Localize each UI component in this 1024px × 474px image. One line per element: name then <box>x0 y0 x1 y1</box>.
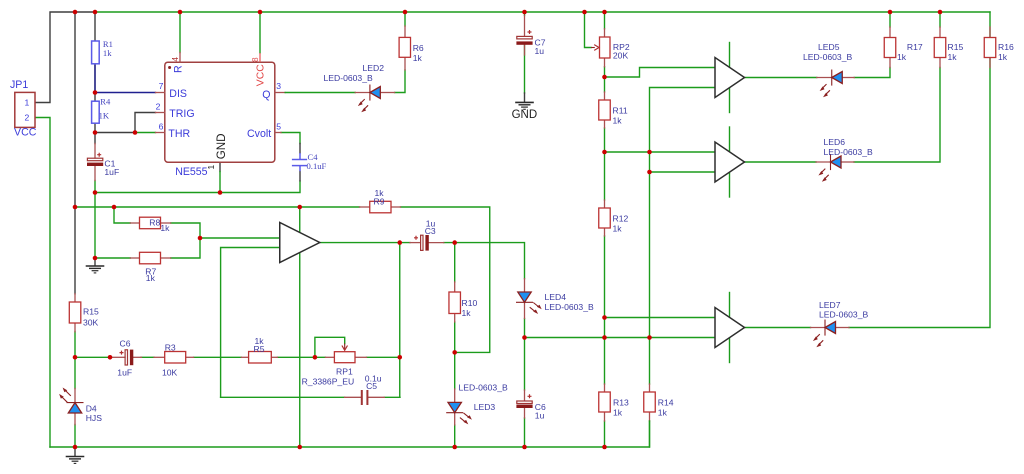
junction rail207 x75 <box>73 205 78 210</box>
capacitor C6 bottom <box>516 390 532 418</box>
junction R11 bottom row <box>602 150 607 155</box>
svg-text:LED-0603_B: LED-0603_B <box>459 383 508 393</box>
svg-text:R9: R9 <box>374 197 385 207</box>
LED7 <box>811 320 850 348</box>
svg-text:1k: 1k <box>613 116 623 126</box>
wire bottom ground rail <box>50 421 650 447</box>
wire RP2 junction to op-amp U3 input+ <box>605 68 716 78</box>
svg-text:R16: R16 <box>998 42 1014 52</box>
svg-text:R5: R5 <box>254 344 265 354</box>
svg-text:D4: D4 <box>86 404 97 414</box>
capacitor C4 <box>292 153 307 171</box>
resistor R9 <box>360 201 401 213</box>
LED5 <box>817 70 855 98</box>
pin lead Q pin3 <box>275 92 285 94</box>
wire op-amp U3 input- column <box>650 88 716 385</box>
wire RP2 wiper from rail <box>585 12 592 48</box>
svg-text:RP1: RP1 <box>336 367 353 377</box>
svg-text:6: 6 <box>159 122 164 132</box>
svg-text:Q: Q <box>262 89 270 101</box>
junction top rail R6 <box>403 10 408 15</box>
wire op-amp U5 output to LED7 <box>745 327 811 329</box>
svg-text:LED3: LED3 <box>474 402 496 412</box>
junction DIS node <box>93 90 98 95</box>
svg-text:NE555: NE555 <box>175 166 207 178</box>
wire C3 junction to R10 <box>454 243 456 282</box>
wire D4 to ground rail <box>74 425 76 448</box>
LED D4 <box>59 388 83 425</box>
svg-text:JP1: JP1 <box>10 79 28 91</box>
junction ground row x95 <box>93 256 98 261</box>
wire op-amp U4 output to LED6 <box>745 161 817 163</box>
svg-text:R13: R13 <box>613 398 629 408</box>
svg-text:3: 3 <box>276 81 281 91</box>
svg-text:DIS: DIS <box>169 88 187 100</box>
svg-text:1u: 1u <box>535 410 545 420</box>
svg-text:1k: 1k <box>462 308 472 318</box>
junction C3 right <box>452 240 457 245</box>
pin lead DIS pin7 <box>156 92 165 94</box>
capacitor C1 <box>87 144 103 181</box>
svg-text:HJS: HJS <box>86 413 103 423</box>
ground symbol GND under C7 <box>515 102 534 109</box>
junction R10 bottom <box>452 350 457 355</box>
svg-text:2: 2 <box>25 113 30 123</box>
svg-text:LED6: LED6 <box>824 137 846 147</box>
resistor R15 30K <box>69 294 81 332</box>
resistor R11 <box>599 92 611 128</box>
svg-text:1k: 1k <box>658 408 668 418</box>
wire rail y207 <box>75 206 360 208</box>
wire junction to op-amp U2 input+ <box>200 237 280 239</box>
wire THR green segment <box>135 132 156 134</box>
junction row152 x649 <box>647 150 652 155</box>
svg-text:R4: R4 <box>100 97 111 107</box>
svg-text:GND: GND <box>215 134 228 160</box>
wire C3 right to LED4 <box>444 243 525 279</box>
junction C1 rail192 <box>93 190 98 195</box>
svg-text:1k: 1k <box>103 48 112 58</box>
resistor R12 <box>599 200 611 236</box>
svg-text:R6: R6 <box>413 43 424 53</box>
svg-text:1k: 1k <box>613 408 623 418</box>
wire top rail down to DIS/THR column <box>94 12 96 144</box>
junction row357 RP1 wiper <box>313 355 318 360</box>
junction top rail at x95 <box>93 10 98 15</box>
wire op-amp U4 input+ row <box>605 151 716 153</box>
op-amp U2 <box>280 223 320 263</box>
svg-text:LED5: LED5 <box>818 42 840 52</box>
junction row357 right <box>397 355 402 360</box>
resistor R7 <box>130 252 170 263</box>
wire op-amp U4 power <box>729 127 731 197</box>
junction top rail at x75 <box>73 10 78 15</box>
wire R7 row <box>95 257 130 259</box>
wire C6b to ground rail <box>524 418 526 447</box>
resistor R13 <box>599 384 611 421</box>
LED6 <box>816 154 854 182</box>
pin name R with inversion dot <box>168 66 171 69</box>
svg-text:1u: 1u <box>535 46 545 56</box>
svg-text:R11: R11 <box>613 106 628 116</box>
svg-text:TRIG: TRIG <box>169 108 194 120</box>
svg-text:LED-0603_B: LED-0603_B <box>824 147 873 157</box>
junction R12 bottom row <box>602 315 607 320</box>
svg-text:2: 2 <box>156 102 161 112</box>
svg-text:LED-0603_B: LED-0603_B <box>819 310 868 320</box>
svg-text:LED2: LED2 <box>363 63 385 73</box>
wire R8 to op-amp junction <box>171 223 200 238</box>
wire R13 to ground rail <box>604 421 606 447</box>
wire NE555 pin8 from rail <box>259 12 261 53</box>
wire R9 row y207 to C5 row <box>221 396 345 398</box>
wire R15 to D4 <box>74 332 76 389</box>
svg-text:R10: R10 <box>462 298 478 308</box>
wire RP1 wiper loop <box>315 337 345 357</box>
svg-text:4: 4 <box>170 57 180 62</box>
resistor R17 <box>884 27 896 68</box>
wire op-amp U5 power <box>729 293 731 363</box>
svg-text:10K: 10K <box>162 368 178 378</box>
resistor R14 <box>644 384 656 447</box>
svg-text:LED-0603_B: LED-0603_B <box>803 52 852 62</box>
svg-text:1k: 1k <box>160 223 170 233</box>
svg-text:R8: R8 <box>149 218 160 228</box>
op-amp U1 IC NE555 <box>165 62 275 162</box>
wire C7 to GND symbol <box>524 45 526 93</box>
pin lead THR pin6 <box>156 132 165 134</box>
wire Cvolt to C4 <box>281 133 300 144</box>
junction row337 x649 <box>647 335 652 340</box>
svg-text:R: R <box>173 65 185 73</box>
svg-text:0.1uF: 0.1uF <box>307 161 327 171</box>
svg-text:30K: 30K <box>83 317 99 327</box>
svg-text:LED-0603_B: LED-0603_B <box>324 73 373 83</box>
junction LED4 row <box>522 335 527 340</box>
wire DIS net R1 to pin7 <box>95 66 156 93</box>
svg-text:8: 8 <box>250 57 260 62</box>
svg-text:C5: C5 <box>366 381 377 391</box>
wire op-amp U4 input- row <box>650 171 716 173</box>
svg-text:THR: THR <box>168 128 190 140</box>
svg-text:C6: C6 <box>120 339 131 349</box>
svg-text:R15: R15 <box>83 306 99 316</box>
wire C4 stubs gray <box>299 144 301 181</box>
resistor R10 <box>449 282 461 322</box>
LED3 <box>446 389 472 425</box>
svg-text:R17: R17 <box>907 42 923 52</box>
junction GND pin rail192 <box>218 190 223 195</box>
wire R11 to R12 <box>604 128 606 200</box>
svg-text:1k: 1k <box>998 52 1008 62</box>
LED4 <box>516 279 542 319</box>
wire C3 junction down to RP1 row <box>399 243 401 398</box>
junction THR node left <box>93 130 98 135</box>
junction ground rail R13 <box>602 445 607 450</box>
potentiometer RP2 <box>591 29 610 67</box>
op-amp U4 <box>715 142 745 182</box>
svg-text:Cvolt: Cvolt <box>247 128 271 140</box>
junction row357 x75 <box>73 355 78 360</box>
capacitor C6 input <box>111 350 142 366</box>
wire C7 from rail <box>524 12 526 16</box>
wire rail y192 C1/GND pin/C4 <box>95 181 300 193</box>
svg-text:VCC: VCC <box>14 127 37 139</box>
svg-text:R3: R3 <box>165 343 176 353</box>
wire R17 top <box>889 12 891 27</box>
pin lead Cvolt pin5 <box>275 132 281 134</box>
wire R3 R5 RP1 row <box>75 356 111 358</box>
wire op-amp U3 power <box>729 43 731 113</box>
wire op-amp U5 input- row <box>525 337 716 339</box>
junction row337 x604 <box>602 335 607 340</box>
svg-text:1uF: 1uF <box>104 167 119 177</box>
LED2 <box>355 85 394 113</box>
resistor R5 <box>241 352 277 364</box>
pin lead VCC pin8 <box>259 53 261 62</box>
resistor R16 <box>984 27 996 68</box>
svg-text:20K: 20K <box>613 51 629 61</box>
svg-text:1k: 1k <box>948 52 958 62</box>
wire C5 right to RP1 junction <box>384 396 400 398</box>
wire op-amp U2 input- <box>221 248 280 398</box>
wire R16 top <box>989 12 991 38</box>
svg-text:R12: R12 <box>613 214 629 224</box>
junction ground rail x75 <box>73 445 78 450</box>
svg-text:R14: R14 <box>658 398 674 408</box>
resistor R3 <box>154 352 194 364</box>
junction THR TRIG node <box>133 130 138 135</box>
capacitor C7 <box>516 16 532 56</box>
junction ground rail C6 <box>522 445 527 450</box>
wire LED2 to R6 <box>395 70 405 93</box>
wire top rail VCC <box>95 11 990 13</box>
svg-text:GND: GND <box>512 109 538 121</box>
wire R15 top <box>939 12 941 27</box>
wire JP1 pin2 VCC down left side <box>35 118 50 448</box>
junction top rail C7 <box>522 10 527 15</box>
wire Q output to LED2 <box>285 92 355 94</box>
wire op-amp U5 input+ row <box>605 317 716 319</box>
wire R9 right to R10 bottom <box>401 207 490 352</box>
wire LED4 to input row <box>524 319 526 391</box>
wire RP2 to R11 <box>604 67 606 92</box>
svg-text:LED-0603_B: LED-0603_B <box>545 302 594 312</box>
junction top rail RP2 <box>602 10 607 15</box>
junction top rail pin8 <box>258 10 263 15</box>
op-amp U3 <box>715 58 745 98</box>
svg-text:R15: R15 <box>948 42 964 52</box>
junction top rail R15 <box>938 10 943 15</box>
wire LED6 to R15 <box>854 68 940 163</box>
junction top rail pin4 <box>178 10 183 15</box>
wire R8 branch <box>114 207 130 223</box>
resistor R1 <box>92 41 100 64</box>
svg-text:C3: C3 <box>425 226 436 236</box>
resistor R4 <box>92 101 100 123</box>
capacitor C5 <box>345 390 385 405</box>
svg-text:1k: 1k <box>413 53 423 63</box>
resistor R15 right <box>934 27 946 68</box>
wire LED5 to R17 <box>854 68 890 78</box>
wire LED3 to ground rail <box>454 425 456 447</box>
svg-text:1k: 1k <box>897 52 907 62</box>
pin lead R pin4 <box>179 53 181 63</box>
wire op-amp U2 output to C3 <box>320 242 410 244</box>
wire NE555 GND pin to rail 192 <box>219 162 221 172</box>
wire R7 right to junction <box>171 238 200 258</box>
junction R7 R8 node <box>198 236 203 241</box>
svg-text:1: 1 <box>25 97 30 107</box>
resistor R8 <box>130 217 170 229</box>
wire R12 to R13 <box>604 236 606 384</box>
wire R6 top from rail <box>404 12 406 26</box>
pin lead TRIG pin2 <box>156 112 165 114</box>
svg-text:7: 7 <box>159 81 164 91</box>
svg-text:VCC: VCC <box>256 64 267 86</box>
svg-text:R_3386P_EU: R_3386P_EU <box>302 376 355 386</box>
wire R10 to LED3 <box>454 322 456 389</box>
junction RP2 bottom <box>602 75 607 80</box>
wire NE555 pin4 from rail <box>179 12 181 53</box>
junction top rail R17 <box>888 10 893 15</box>
svg-text:1uF: 1uF <box>117 368 132 378</box>
wire op-amp U3 output to LED5 <box>745 77 817 79</box>
ground symbol near THR row <box>86 258 105 273</box>
svg-text:1K: 1K <box>99 111 110 121</box>
junction row357 C6 <box>108 355 113 360</box>
wire RP2 from rail <box>604 12 606 29</box>
wire LED7 to R16 column <box>849 58 990 328</box>
wire top rail to R15 <box>74 12 76 294</box>
resistor R6 <box>399 26 410 70</box>
junction ground rail LED3 <box>452 445 457 450</box>
op-amp U5 <box>715 308 745 348</box>
capacitor C3 <box>410 235 444 251</box>
wire JP1 pin1 to top rail <box>35 12 95 103</box>
junction rail207 opamp power <box>297 205 302 210</box>
connector JP1 <box>15 92 35 127</box>
junction C3 left <box>397 240 402 245</box>
ground symbol bottom left <box>66 447 85 463</box>
wire op-amp U2 power column <box>299 207 301 447</box>
wire C1 to GND row <box>94 181 96 259</box>
svg-text:LED7: LED7 <box>819 300 841 310</box>
wire THR and TRIG black <box>95 113 156 133</box>
svg-text:LED4: LED4 <box>545 292 567 302</box>
junction row172 start <box>647 170 652 175</box>
svg-text:5: 5 <box>276 122 281 132</box>
svg-text:1k: 1k <box>146 273 156 283</box>
junction top rail RP2 wiper <box>582 10 587 15</box>
junction ground rail x299 <box>297 445 302 450</box>
junction rail207 R8 branch <box>112 205 117 210</box>
potentiometer RP1 <box>325 344 366 363</box>
svg-text:1k: 1k <box>613 224 623 234</box>
